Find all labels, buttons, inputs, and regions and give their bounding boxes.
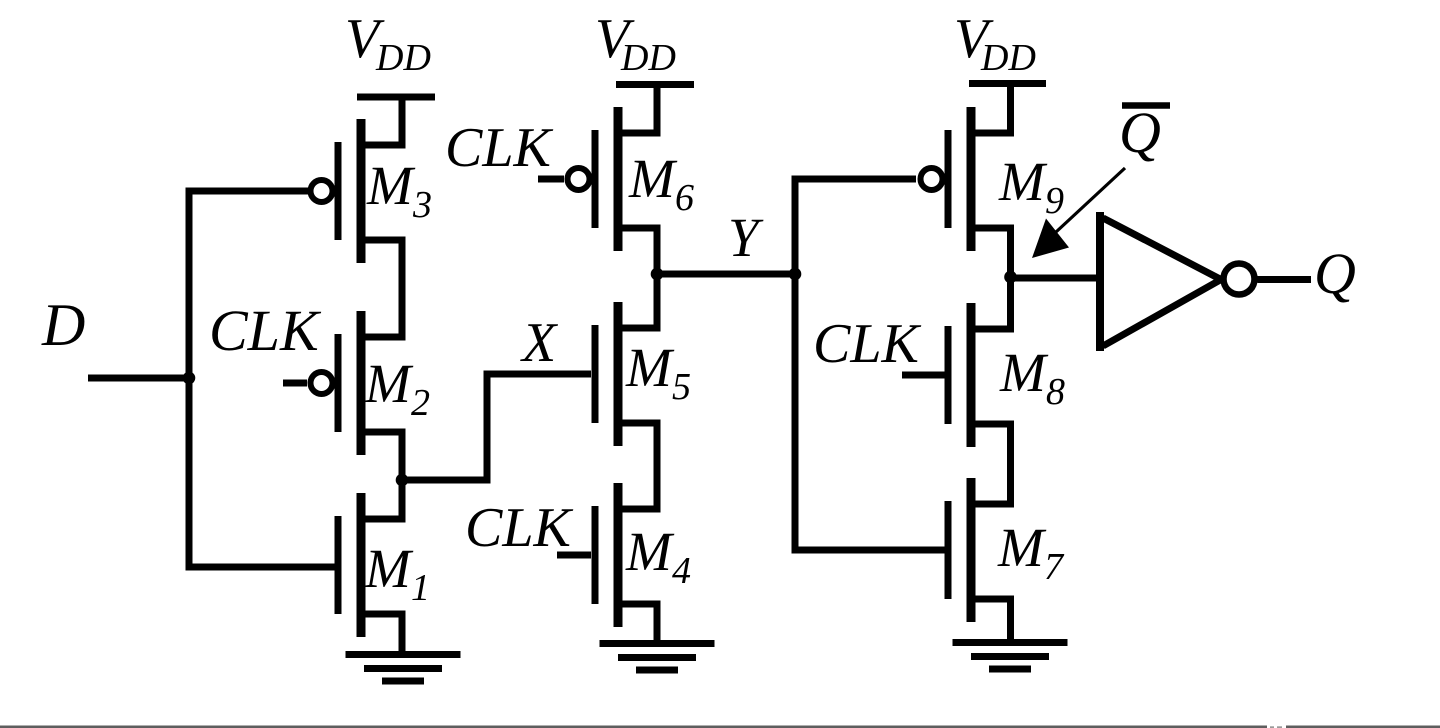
- label M1: [364, 538, 430, 609]
- wire M4 source to ground: [654, 604, 661, 647]
- node Qbar junction dot: [1004, 271, 1017, 284]
- label M3: [366, 155, 432, 226]
- svg-text:M: M: [998, 151, 1048, 212]
- wire CLK to M8 gate: [902, 372, 945, 379]
- svg-text:5: 5: [672, 366, 691, 408]
- wire M7 source to ground: [1007, 599, 1014, 646]
- svg-text:CLK: CLK: [209, 298, 322, 363]
- label M7: [997, 517, 1065, 588]
- svg-text:M: M: [364, 353, 414, 414]
- svg-text:6: 6: [675, 177, 694, 219]
- transistor M5 (NMOS): [595, 302, 661, 446]
- wire node Qbar to inverter input: [1011, 275, 1098, 282]
- wire Y to M9 gate bubble: [792, 176, 917, 183]
- svg-text:M: M: [366, 155, 416, 216]
- wire CLK to M2 gate bubble: [283, 380, 307, 387]
- transistor M3 (PMOS): [311, 119, 406, 263]
- transistor M2 (PMOS): [311, 311, 406, 455]
- svg-text:M: M: [999, 342, 1049, 403]
- wire CLK to M4 gate: [557, 552, 591, 559]
- ground (stack 2): [600, 644, 715, 671]
- wire M1 source to ground: [399, 614, 406, 655]
- transistor M9 (PMOS): [921, 107, 1015, 251]
- svg-text:CLK: CLK: [465, 497, 573, 559]
- VDD supply symbol (stack 2): [616, 81, 694, 134]
- svg-text:8: 8: [1046, 371, 1065, 413]
- svg-text:4: 4: [672, 550, 691, 592]
- svg-text:X: X: [520, 312, 559, 374]
- svg-text:DD: DD: [980, 37, 1036, 79]
- svg-text:2: 2: [411, 382, 430, 424]
- wire Y to M7 gate: [792, 547, 946, 554]
- label M8: [999, 342, 1065, 413]
- svg-text:M: M: [628, 148, 678, 209]
- wire node X to M5 gate: [399, 371, 592, 484]
- wire M8 drain to node Qbar: [1007, 275, 1014, 329]
- transistor M7 (NMOS): [948, 478, 1014, 622]
- svg-text:CLK: CLK: [445, 117, 553, 179]
- label VDD (stack 2): [595, 8, 676, 79]
- ground (stack 3): [953, 643, 1068, 670]
- svg-text:1: 1: [411, 567, 430, 609]
- wire D to M1 gate: [186, 564, 336, 571]
- VDD supply symbol (stack 1): [357, 94, 435, 146]
- wire node Y bus vertical: [792, 176, 799, 554]
- svg-text:M: M: [997, 517, 1047, 578]
- wire M8 source to M7 drain: [1007, 424, 1014, 504]
- inverter U1: [1100, 212, 1255, 351]
- svg-text:CLK: CLK: [813, 313, 921, 375]
- transistor M1 (NMOS): [338, 493, 406, 637]
- bottom page edge line: [0, 726, 1440, 728]
- svg-text:DD: DD: [620, 37, 676, 79]
- label M4: [625, 521, 691, 592]
- node X junction dot: [396, 474, 409, 487]
- transistor M8 (NMOS): [948, 303, 1014, 447]
- label M9: [998, 151, 1064, 222]
- svg-text:M: M: [364, 538, 414, 599]
- node Y bus junction dot: [789, 268, 802, 281]
- wire M3 source to M2 drain: [399, 240, 406, 337]
- svg-text:9: 9: [1045, 180, 1064, 222]
- wire M6 source to node Y: [654, 228, 661, 274]
- svg-text:M: M: [625, 337, 675, 398]
- ground (stack 1): [346, 655, 461, 682]
- wire CLK to M6 gate bubble: [538, 176, 564, 183]
- svg-text:M: M: [625, 521, 675, 582]
- wire node Y horizontal: [657, 271, 795, 278]
- node Y junction dot (M6 source): [651, 268, 664, 281]
- arrow from Qbar label to node: [1032, 168, 1125, 258]
- svg-text:D: D: [41, 292, 85, 358]
- node D junction dot: [183, 372, 196, 385]
- wire inverter output Q: [1258, 276, 1312, 283]
- svg-text:7: 7: [1044, 546, 1065, 588]
- label VDD (stack 3): [954, 8, 1036, 79]
- wire D input: [88, 375, 192, 382]
- svg-text:Q: Q: [1314, 241, 1356, 306]
- wire M5 source to M4 drain: [654, 423, 661, 509]
- VDD supply symbol (stack 3): [969, 80, 1046, 134]
- label M6: [628, 148, 694, 219]
- transistor M6 (PMOS): [568, 107, 661, 251]
- label M2: [364, 353, 430, 424]
- svg-text:Q: Q: [1119, 100, 1161, 165]
- wire M2 source to M1 drain (node X): [399, 432, 406, 519]
- svg-text:3: 3: [412, 184, 432, 226]
- wire M9 source to node Qbar: [1007, 228, 1014, 275]
- label Qbar with overbar: [1119, 100, 1170, 165]
- transistor M4 (NMOS): [595, 483, 661, 627]
- label VDD (stack 1): [345, 8, 431, 79]
- wire node Y to M5 drain: [654, 274, 661, 328]
- wire D to M3 gate: [186, 188, 309, 195]
- wire D bus vertical: [186, 188, 193, 571]
- svg-text:DD: DD: [375, 37, 431, 79]
- label M5: [625, 337, 691, 408]
